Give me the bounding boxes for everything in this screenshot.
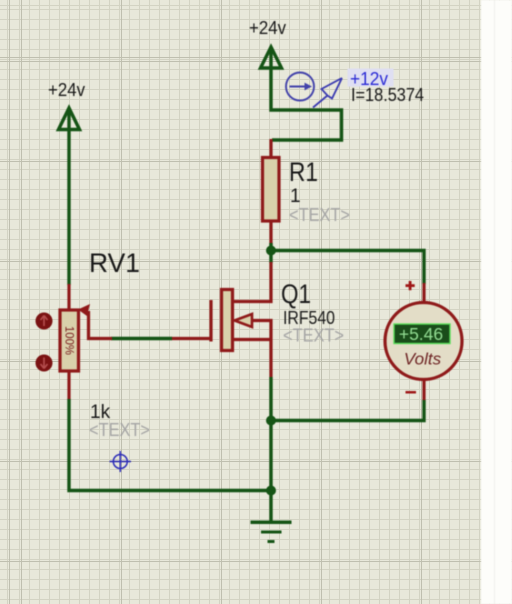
wire: RV1 bottom to bottom rail (69, 399, 272, 491)
svg-text:<TEXT>: <TEXT> (283, 326, 344, 346)
label Q1 (281, 279, 311, 309)
svg-text:+24v: +24v (48, 80, 85, 100)
transistor Q1 gate line (209, 300, 212, 342)
transistor Q1 gate lead (171, 337, 212, 340)
probe pointer cursor (313, 78, 342, 108)
current probe (circle with arrow) (286, 73, 314, 101)
voltmeter Volts label (404, 350, 442, 369)
svg-text:+5.46: +5.46 (399, 324, 443, 344)
wire: R1 bottom to junction (269, 243, 272, 252)
potentiometer RV1 setting 100% (62, 326, 76, 355)
value 1k (90, 402, 111, 423)
transistor Q1 body bar (222, 290, 233, 351)
power terminal +24v (left) arrow symbol (59, 108, 80, 131)
voltmeter display (394, 324, 450, 344)
wire: source pin to junction (269, 377, 272, 421)
placeholder &lt;TEXT&gt; of Q1 (283, 326, 344, 346)
wire: junction down to drain pin (269, 251, 272, 264)
label +12v (348, 69, 394, 90)
wire: voltmeter - back to source junction (271, 400, 424, 421)
voltmeter + terminal marker (406, 281, 415, 290)
svg-text:100%: 100% (62, 326, 76, 355)
junction node (bottom rail) (266, 486, 276, 496)
voltmeter top pin (422, 283, 425, 304)
svg-text:I=18.5374: I=18.5374 (351, 85, 424, 105)
value IRF540 (283, 308, 335, 328)
right page margin (outside sheet) (481, 0, 512, 604)
wire: gate to RV1 wiper (111, 337, 172, 340)
placeholder &lt;TEXT&gt; of RV1 (89, 420, 150, 440)
svg-text:1: 1 (290, 186, 301, 207)
label I=18.5374 (351, 85, 424, 105)
label +24v (left) (48, 80, 85, 100)
svg-text:<TEXT>: <TEXT> (89, 420, 150, 440)
transistor Q1 source stubs and pin (232, 321, 271, 378)
potentiometer RV1 bottom pin (67, 370, 70, 400)
potentiometer RV1 wiper arrow and lead (78, 304, 112, 339)
resistor R1 bottom pin (269, 221, 272, 245)
power terminal +24v (top) arrow symbol (261, 47, 282, 70)
svg-text:+24v: +24v (249, 18, 286, 38)
svg-text:RV1: RV1 (89, 248, 140, 278)
voltmeter bottom pin (422, 379, 425, 401)
potentiometer RV1 body (60, 310, 79, 371)
wire: top +24v jog to R1 top (271, 70, 342, 140)
wire: junction to ground (269, 491, 272, 523)
transistor Q1 body-diode arrow (235, 314, 253, 327)
svg-text:Q1: Q1 (281, 279, 311, 309)
svg-text:Volts: Volts (404, 350, 442, 369)
wire: left rail from +24v down to RV1 top (67, 130, 70, 285)
label R1 (289, 157, 318, 187)
value 1 (290, 186, 301, 207)
transistor Q1 drain pin (232, 262, 271, 302)
label RV1 (89, 248, 140, 278)
resistor R1 top pin (269, 139, 272, 159)
wire: junction to voltmeter + (271, 251, 424, 285)
origin marker (blue crosshair) (110, 451, 132, 472)
svg-text:<TEXT>: <TEXT> (289, 205, 350, 225)
svg-text:R1: R1 (289, 157, 318, 187)
voltmeter body (385, 303, 462, 380)
ground symbol (251, 521, 292, 544)
voltmeter - terminal marker (406, 391, 417, 394)
junction node (source / voltmeter-) (266, 416, 276, 426)
junction node (drain / R1 / voltmeter+) (266, 246, 276, 256)
placeholder &lt;TEXT&gt; of R1 (289, 205, 350, 225)
RV1 terminal marker dot (down) (36, 355, 53, 372)
resistor R1 body (263, 158, 280, 222)
RV1 terminal marker dot (up) (36, 313, 53, 330)
label +24v (top) (249, 18, 286, 38)
wire: junction down to bottom rail junction (269, 421, 272, 492)
potentiometer RV1 top pin (67, 284, 70, 311)
